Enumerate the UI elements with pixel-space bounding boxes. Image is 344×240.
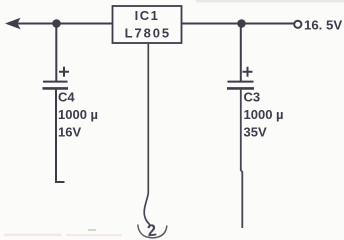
scan blur band top edge [196, 0, 344, 2]
svg-text:35V: 35V [244, 125, 267, 140]
svg-text:IC1: IC1 [135, 8, 160, 23]
junction node A (input rail / C4) [52, 19, 61, 28]
capacitor C4 [43, 67, 70, 89]
value label C4 1000u 16V [58, 90, 98, 140]
IC IC1 voltage regulator L7805 [113, 6, 182, 43]
top plate [228, 81, 254, 83]
svg-text:1000 µ: 1000 µ [244, 107, 284, 122]
wire: top rail [14, 23, 295, 25]
svg-text:L7805: L7805 [125, 26, 171, 41]
capacitor C3 [227, 67, 254, 89]
bottom plate [43, 87, 69, 90]
terminal: 16.5V output [294, 18, 342, 33]
junction node B (output rail / C3) [237, 19, 246, 28]
bottom plate [227, 87, 254, 90]
plus polarity mark C3 [243, 67, 253, 77]
plus polarity mark C4 [59, 67, 69, 77]
node (2) connector label [138, 221, 167, 240]
arrow: output to left [5, 18, 21, 29]
svg-text:16. 5V: 16. 5V [304, 18, 342, 33]
wire: IC1 ground lead down to node (2) [144, 43, 151, 226]
svg-text:C4: C4 [58, 90, 75, 105]
scan smear bottom edge [4, 234, 122, 237]
wire: left node down to C4 [55, 24, 57, 82]
svg-text:16V: 16V [58, 125, 81, 140]
scan green speck [88, 229, 96, 231]
value label C3 1000u 35V [244, 90, 284, 140]
top plate [43, 81, 68, 83]
wire: C3 bottom lead [241, 90, 243, 228]
wire: right node down to C3 [240, 24, 242, 82]
svg-text:C3: C3 [244, 90, 261, 105]
wire: C4 bottom lead with corner stub [56, 90, 65, 182]
svg-text:1000 µ: 1000 µ [58, 107, 98, 122]
